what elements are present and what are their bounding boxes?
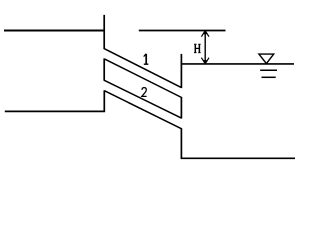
arrowhead down (at downstream water surface) bbox=[201, 58, 209, 64]
arrowhead up (at upstream level extension) bbox=[201, 30, 209, 36]
pipe 2 lower wall incline D bbox=[104, 91, 181, 129]
dimension H arrow shaft bbox=[204, 31, 206, 64]
pipe 2 upper wall incline C bbox=[104, 80, 182, 118]
water surface symbol: inverted triangle bbox=[259, 54, 274, 64]
left wall lower vertical to reservoir floor bbox=[103, 90, 105, 111]
label H (head) bbox=[194, 44, 201, 53]
pipe 1 upper wall incline A bbox=[104, 48, 182, 87]
label 2 (pipe 2) bbox=[142, 88, 147, 97]
upstream dam face upper vertical wall bbox=[103, 15, 105, 49]
right wall lower vertical to downstream floor bbox=[180, 128, 182, 158]
right wall segment between pipe 1 and pipe 2 outlets bbox=[180, 97, 182, 119]
label 1 (pipe 1) bbox=[144, 54, 149, 64]
left reservoir floor bbox=[5, 110, 105, 112]
upstream level extension line over downstream side bbox=[139, 30, 226, 32]
downstream water surface line bbox=[181, 63, 294, 65]
water surface symbol: second dash below line bbox=[262, 76, 276, 78]
water surface symbol: first dash below line bbox=[260, 69, 277, 71]
upstream water level line (left reservoir surface) bbox=[4, 30, 105, 32]
downstream floor bbox=[181, 157, 295, 159]
downstream dam face crest vertical (above pipe 1 outlet) bbox=[180, 54, 182, 88]
left wall segment between pipe 1 and pipe 2 inlets bbox=[103, 58, 105, 80]
pipe 1 lower wall incline B bbox=[104, 59, 181, 98]
